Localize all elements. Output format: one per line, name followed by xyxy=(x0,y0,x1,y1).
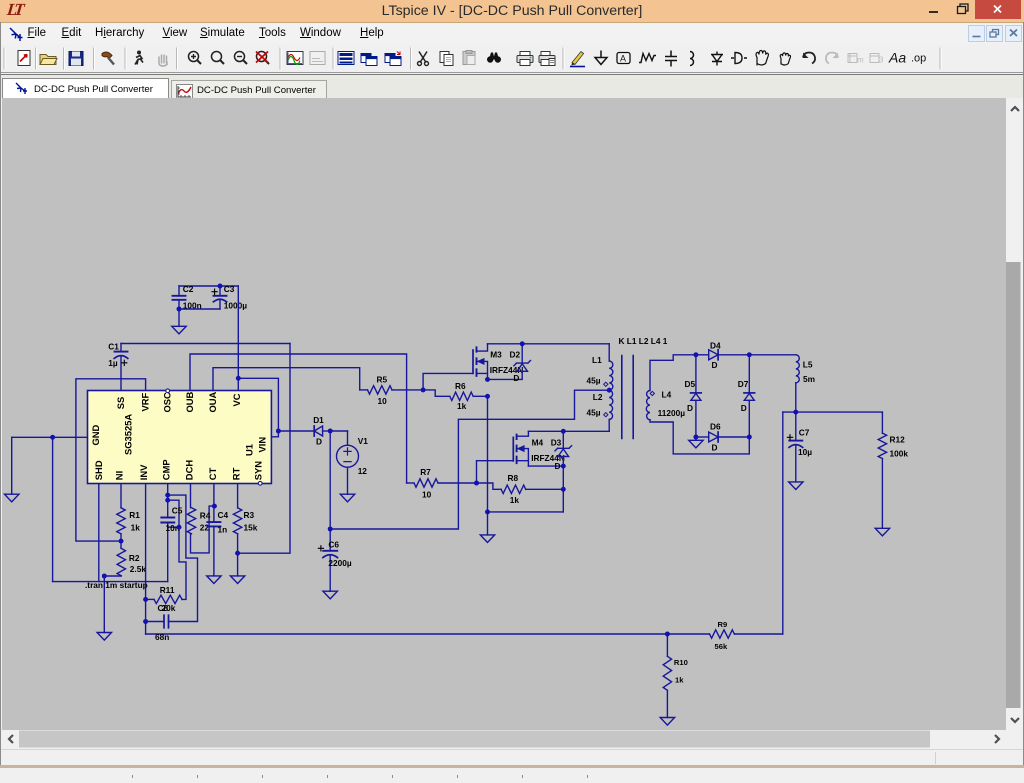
wire supply node xyxy=(330,430,347,432)
svg-text:V1: V1 xyxy=(358,436,369,446)
ground below C4 xyxy=(207,576,221,584)
svg-text:R2: R2 xyxy=(129,553,140,563)
svg-text:R11: R11 xyxy=(160,585,175,595)
transistor M4 xyxy=(512,437,514,461)
node M3 source xyxy=(485,377,490,382)
svg-text:1k: 1k xyxy=(131,523,141,533)
svg-text:D: D xyxy=(712,442,718,452)
inductor L4 xyxy=(646,391,650,420)
title bar xyxy=(0,0,1024,23)
wire feedback drop xyxy=(782,412,784,634)
resistor R12 xyxy=(881,412,883,433)
node VIN xyxy=(276,429,281,434)
svg-text:.op: .op xyxy=(911,53,926,65)
svg-text:SYN: SYN xyxy=(252,461,263,481)
svg-text:C1: C1 xyxy=(108,342,119,352)
svg-text:L5: L5 xyxy=(803,359,813,369)
resistor R2 xyxy=(120,541,122,548)
svg-text:R12: R12 xyxy=(890,434,906,444)
capacitor C6 xyxy=(329,529,331,551)
svg-text:45µ: 45µ xyxy=(587,407,601,417)
capacitor C2 xyxy=(178,286,180,309)
phase dot L2 xyxy=(604,413,608,417)
svg-text:DCH: DCH xyxy=(183,460,194,481)
node D1 out xyxy=(328,429,333,434)
source V1 xyxy=(347,431,349,445)
node VC junction xyxy=(236,376,241,381)
node RT bottom xyxy=(235,551,240,556)
horizontal scrollbar xyxy=(2,730,1006,748)
svg-text:NI: NI xyxy=(113,471,124,480)
diode D5 xyxy=(695,355,697,393)
capacitor C1 xyxy=(120,344,122,391)
svg-text:1000µ: 1000µ xyxy=(224,301,247,311)
svg-text:.tran 1m startup: .tran 1m startup xyxy=(85,580,148,590)
resistor R4 xyxy=(190,484,192,508)
resistor R10 xyxy=(666,634,668,656)
svg-text:M3: M3 xyxy=(490,350,502,360)
resistor R7 xyxy=(407,482,414,484)
svg-text:A: A xyxy=(620,54,626,64)
resistor R3 xyxy=(237,484,239,508)
node R7 out xyxy=(474,481,479,486)
svg-text:SHD: SHD xyxy=(93,460,104,480)
svg-text:D6: D6 xyxy=(710,421,721,431)
wire right drop to RT node xyxy=(238,344,290,554)
svg-text:C2: C2 xyxy=(183,284,194,294)
node A xyxy=(694,352,699,357)
phase dot L4 xyxy=(650,391,654,395)
diode D7 xyxy=(748,355,750,393)
wire bottom feedback rail xyxy=(146,633,710,635)
node C xyxy=(694,435,699,440)
svg-text:56k: 56k xyxy=(715,642,728,651)
node B xyxy=(747,352,752,357)
wire OUA run xyxy=(213,368,360,391)
node CMP b xyxy=(165,498,170,503)
wire VC to VIN xyxy=(238,378,278,437)
svg-text:10: 10 xyxy=(378,396,388,406)
schematic canvas xyxy=(2,98,1006,730)
svg-text:SS: SS xyxy=(115,397,126,410)
svg-text:10µ: 10µ xyxy=(798,447,812,457)
resistor R5 xyxy=(360,389,368,391)
svg-text:U1: U1 xyxy=(243,444,254,456)
svg-text:11200µ: 11200µ xyxy=(658,408,686,418)
svg-text:D3: D3 xyxy=(551,438,562,448)
wire C2-C3 bottom xyxy=(179,308,220,310)
node CMP a xyxy=(165,493,170,498)
node C5 tap xyxy=(177,525,182,530)
svg-text:R7: R7 xyxy=(420,467,431,477)
svg-text:D: D xyxy=(687,403,693,413)
svg-text:L1: L1 xyxy=(592,355,602,365)
node D xyxy=(747,435,752,440)
svg-text:R3: R3 xyxy=(244,510,255,520)
menu bar xyxy=(0,24,1024,45)
svg-text:3: 3 xyxy=(879,56,884,65)
svg-text:CMP: CMP xyxy=(160,459,171,480)
svg-text:K L1 L2 L4 1: K L1 L2 L4 1 xyxy=(619,336,668,346)
wire OUB run xyxy=(190,354,407,483)
svg-text:OSC: OSC xyxy=(162,392,173,413)
capacitor C3 xyxy=(219,286,221,309)
svg-text:1k: 1k xyxy=(675,676,684,685)
capacitor C4 xyxy=(213,484,215,523)
svg-text:Aa: Aa xyxy=(888,50,906,66)
svg-text:D: D xyxy=(316,437,322,447)
node R2 bottom xyxy=(102,574,107,579)
svg-text:D7: D7 xyxy=(738,379,749,389)
diode D1 xyxy=(278,430,314,432)
capacitor C7 xyxy=(795,412,797,441)
wire D2 top xyxy=(488,343,610,345)
node R5 out xyxy=(421,388,426,393)
svg-text:R9: R9 xyxy=(718,620,728,629)
node C4 top xyxy=(212,504,217,509)
svg-text:1µ: 1µ xyxy=(108,358,118,368)
svg-text:R8: R8 xyxy=(508,473,519,483)
svg-text:VC: VC xyxy=(231,393,242,406)
svg-text:C7: C7 xyxy=(799,428,810,438)
svg-text:M4: M4 xyxy=(532,438,544,448)
svg-text:45µ: 45µ xyxy=(587,375,601,385)
capacitor C8 xyxy=(146,621,164,623)
diode D6 xyxy=(696,436,709,438)
svg-text:D: D xyxy=(712,360,718,370)
wire M3 source down xyxy=(488,396,564,512)
status bar xyxy=(0,749,1024,766)
wire M4 gate xyxy=(477,461,514,483)
wire GND pin xyxy=(12,436,88,438)
node D2 drain xyxy=(520,341,525,346)
zener D3 xyxy=(562,431,564,512)
wire CMP down xyxy=(167,484,169,518)
ground left xyxy=(11,437,13,494)
svg-text:10: 10 xyxy=(422,489,432,499)
inductor L2 xyxy=(609,390,613,419)
wire tran rail xyxy=(53,581,168,583)
svg-text:RT: RT xyxy=(230,467,241,480)
svg-text:D5: D5 xyxy=(685,379,696,389)
svg-text:SG3525A: SG3525A xyxy=(123,414,134,455)
ground M3/M4 source xyxy=(487,512,489,535)
node C3 top xyxy=(218,284,223,289)
svg-text:INV: INV xyxy=(138,464,149,480)
node R1-R2 xyxy=(119,539,124,544)
svg-text:VRF: VRF xyxy=(139,392,150,411)
svg-text:2200µ: 2200µ xyxy=(328,558,351,568)
ground below R2 xyxy=(103,576,105,633)
svg-text:VIN: VIN xyxy=(257,437,268,453)
svg-text:C4: C4 xyxy=(218,510,229,520)
svg-text:D2: D2 xyxy=(510,350,521,360)
diode D4 xyxy=(696,354,709,356)
svg-text:1k: 1k xyxy=(457,401,467,411)
svg-text:C5: C5 xyxy=(172,506,183,516)
toolbar xyxy=(0,44,1024,73)
svg-text:L4: L4 xyxy=(662,390,672,400)
wire L2 bottom xyxy=(528,430,609,432)
svg-text:R10: R10 xyxy=(674,658,688,667)
svg-text:68n: 68n xyxy=(155,632,169,642)
op-amp U1 SG3525A xyxy=(88,391,272,484)
resistor R8 xyxy=(477,483,502,489)
node center tap xyxy=(607,388,612,393)
svg-text:R5: R5 xyxy=(377,374,388,384)
wire M4 source xyxy=(528,465,563,467)
svg-text:D1: D1 xyxy=(313,415,324,425)
node GND branch xyxy=(50,435,55,440)
wire L1 top xyxy=(608,344,610,361)
node D3 top xyxy=(561,429,566,434)
resistor R1 xyxy=(120,484,122,508)
wire supply down xyxy=(329,431,331,529)
node out xyxy=(793,410,798,415)
svg-text:OUB: OUB xyxy=(184,391,195,412)
resistor R6 xyxy=(423,390,450,396)
wire supply snake xyxy=(330,390,609,529)
resistor R9 xyxy=(710,630,735,638)
ground bridge xyxy=(695,437,697,440)
svg-text:C3: C3 xyxy=(224,284,235,294)
node src gnd xyxy=(485,510,490,515)
svg-text:OUA: OUA xyxy=(207,391,218,412)
transistor M3 xyxy=(472,350,474,373)
wire VRF to divider xyxy=(76,379,146,541)
svg-text:D: D xyxy=(513,373,519,383)
node C2 bottom xyxy=(177,307,182,312)
svg-text:D: D xyxy=(555,461,561,471)
node R8 out xyxy=(561,487,566,492)
svg-text:C8: C8 xyxy=(158,603,169,613)
node R11 left xyxy=(143,597,148,602)
svg-text:L2: L2 xyxy=(593,392,603,402)
wire INV down xyxy=(145,484,147,635)
taskbar sliver xyxy=(0,765,1024,768)
svg-text:D4: D4 xyxy=(710,340,721,350)
resistor R11 xyxy=(146,598,154,600)
svg-text:R4: R4 xyxy=(200,511,211,521)
wire VC rail down xyxy=(237,286,239,391)
inductor L1 xyxy=(609,361,613,390)
wire GND to tran rail xyxy=(52,437,54,581)
phase dot L1 xyxy=(604,382,608,386)
node R10 top xyxy=(665,632,670,637)
svg-text:2.5k: 2.5k xyxy=(130,564,147,574)
node C8 left xyxy=(143,619,148,624)
svg-text:100k: 100k xyxy=(890,449,909,459)
zener D2 xyxy=(488,344,523,380)
svg-text:C6: C6 xyxy=(328,540,339,550)
ground below R3 xyxy=(230,576,244,584)
svg-text:5m: 5m xyxy=(803,374,815,384)
left window border xyxy=(0,22,1,765)
wire C1 top rail xyxy=(121,343,290,345)
svg-text:12: 12 xyxy=(358,466,368,476)
ground below C2 xyxy=(178,309,180,326)
inductor L5 xyxy=(796,355,800,383)
wire C2/C3 top rail xyxy=(179,285,238,287)
svg-text:1n: 1n xyxy=(218,524,228,534)
svg-text:CT: CT xyxy=(207,467,218,480)
svg-text:15k: 15k xyxy=(244,523,258,533)
svg-text:m: m xyxy=(857,56,864,65)
node M4 src xyxy=(561,464,566,469)
wire SHD down xyxy=(98,484,100,582)
capacitor C5 xyxy=(161,518,174,523)
core xyxy=(622,356,633,439)
junction dots xyxy=(177,307,182,312)
wire node B to L5 xyxy=(749,354,796,356)
wire M3 gate xyxy=(423,373,473,390)
svg-text:22: 22 xyxy=(200,522,210,532)
svg-text:R6: R6 xyxy=(455,381,466,391)
svg-text:D: D xyxy=(741,403,747,413)
svg-text:R1: R1 xyxy=(129,510,140,520)
node R6 out xyxy=(485,394,490,399)
vertical scrollbar xyxy=(1006,98,1024,730)
node C6 top xyxy=(328,527,333,532)
tab bar xyxy=(0,74,1024,98)
svg-text:1k: 1k xyxy=(510,495,520,505)
wire out rail xyxy=(783,411,883,413)
svg-text:GND: GND xyxy=(90,424,101,445)
